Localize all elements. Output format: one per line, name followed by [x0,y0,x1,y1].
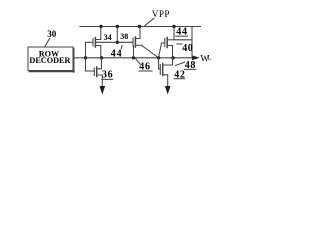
wire 38 source diagonal [142,45,159,58]
svg-text:30: 30 [47,29,57,39]
svg-text:L: L [208,54,212,61]
transistor 40 [162,38,175,58]
wire gate-42 feed [158,58,160,69]
wire gate-34 feedback [85,42,87,58]
wire 48 drop [191,40,193,58]
word line wire [86,57,194,59]
wire VPP drop [116,27,118,43]
svg-text:VPP: VPP [152,9,170,19]
svg-text:38: 38 [120,32,128,41]
svg-text:34: 34 [104,33,112,42]
transistor 36 [86,58,103,87]
node dot E (40 source / 42 drain) [171,56,174,59]
leader for 46 [136,59,140,64]
row decoder text [29,50,70,65]
underline 42 [174,78,184,80]
wire 38 gate drop [133,46,135,58]
junction dot net44/VPP drop [116,41,119,44]
underline 44 right [176,35,188,37]
leader for 44 left [120,46,123,49]
svg-text:40: 40 [182,43,193,54]
node dot B (34 source / 36 drain) [100,56,103,59]
rail dot 1 [99,25,102,28]
transistor 38 [133,27,142,48]
wire decoder output [74,57,86,59]
rail dot 2 [116,25,119,28]
node dot D (diagonals junction) [157,56,160,59]
leader for 30 [45,39,50,47]
VPP rail [80,26,201,28]
row decoder box 30 [28,47,74,72]
wire 40 gate diagonal [159,43,162,58]
ground arrow 36 [100,86,106,95]
underline 46 [139,70,152,72]
wire net 44 to gate 38 [95,41,133,43]
transistor 34 [86,27,101,58]
svg-text:DECODER: DECODER [29,56,70,65]
wire gate-36 feed [85,58,87,71]
node dot C (38 gate drop) [132,56,135,59]
VPP leader [145,18,154,25]
leader for 48 [176,62,185,65]
underline 48 [184,68,196,70]
wire 40 drain loop [174,27,192,40]
WL label [200,53,211,63]
ground arrow 42 [165,86,171,95]
leader for 40 [177,43,182,45]
svg-text:44: 44 [111,49,123,60]
underline 36 [102,78,113,80]
node dot A (decoder output) [84,56,87,59]
rail dot 3 [138,25,141,28]
WL arrowhead [192,55,200,60]
rail dot 4 [172,25,175,28]
transistor 42 [159,58,173,87]
